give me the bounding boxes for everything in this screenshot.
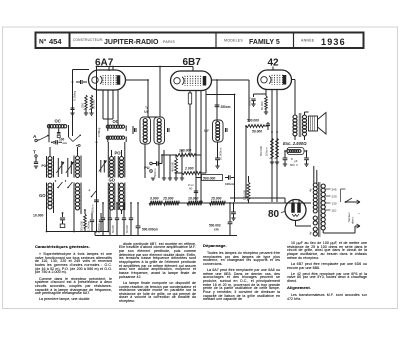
transformer output secondary bbox=[302, 115, 306, 136]
bus chassis bbox=[95, 235, 237, 237]
ground bbox=[168, 177, 172, 179]
wire plate 6B7 bbox=[212, 79, 249, 81]
svg-text:3.000: 3.000 bbox=[150, 197, 159, 201]
speaker voice coil bbox=[309, 116, 318, 131]
wire bbox=[272, 67, 274, 71]
header box bbox=[36, 33, 364, 49]
coil GO 2a bbox=[107, 183, 109, 211]
wire bbox=[107, 210, 109, 232]
svg-text:10.000cm: 10.000cm bbox=[219, 147, 223, 160]
switch contact bbox=[67, 187, 69, 189]
svg-text:1.000cm: 1.000cm bbox=[87, 221, 91, 231]
switch voltage selector bbox=[345, 201, 347, 203]
variable capacitor bbox=[67, 161, 69, 174]
bus B+ bbox=[150, 202, 311, 204]
capacitor bbox=[100, 213, 102, 219]
coil PO 1a bbox=[46, 156, 48, 178]
svg-text:OC: OC bbox=[55, 118, 61, 123]
svg-text:altern.: altern. bbox=[351, 216, 355, 224]
transformer power core bbox=[318, 182, 320, 237]
ground bbox=[304, 163, 308, 165]
switch contact bbox=[73, 136, 80, 142]
resistor 500.000 boxed bbox=[202, 175, 223, 181]
trimmer capacitor bbox=[225, 128, 227, 132]
svg-text:ANNÉE: ANNÉE bbox=[301, 38, 315, 43]
coil GO 2b bbox=[117, 183, 119, 211]
resistor 50.000 grid 42 bbox=[265, 94, 267, 96]
terminal bbox=[76, 145, 78, 147]
wire plate 42 bbox=[292, 79, 296, 81]
svg-text:500.000: 500.000 bbox=[203, 177, 215, 181]
variable capacitor 2 bbox=[100, 160, 102, 173]
svg-text:100cm: 100cm bbox=[225, 182, 235, 186]
transformer MF2 bbox=[213, 120, 224, 142]
svg-text:50.000: 50.000 bbox=[260, 101, 264, 110]
wire 42 leads bbox=[265, 90, 267, 95]
ground bbox=[89, 112, 93, 114]
wire bbox=[230, 197, 285, 199]
svg-text:2.000: 2.000 bbox=[184, 167, 194, 171]
wire grid-cap bus bbox=[97, 66, 194, 68]
svg-text:500.000cm: 500.000cm bbox=[142, 228, 158, 232]
coil PO 1b bbox=[73, 156, 75, 178]
tap 130 bbox=[325, 202, 330, 204]
resistor 250 bbox=[85, 95, 87, 109]
svg-text:454: 454 bbox=[49, 37, 62, 46]
resistor 10.000 bbox=[187, 201, 202, 205]
wire grid cap 6A7 bbox=[108, 67, 110, 72]
junction dots bbox=[96, 66, 98, 68]
svg-text:500.000: 500.000 bbox=[247, 119, 259, 123]
capacitor 1.000cm bbox=[102, 203, 104, 218]
ground bbox=[70, 112, 74, 114]
svg-text:PO: PO bbox=[115, 151, 122, 156]
transformer output primary bbox=[293, 115, 297, 136]
capacitor bbox=[229, 203, 231, 222]
wire bbox=[304, 112, 306, 115]
wire bbox=[96, 67, 98, 233]
svg-text:FAMILY 5: FAMILY 5 bbox=[249, 39, 280, 46]
svg-text:500: 500 bbox=[290, 163, 295, 167]
resistor 50.000 bbox=[90, 95, 92, 109]
capacitor 10.000cm bbox=[215, 157, 220, 159]
wire bbox=[245, 126, 247, 198]
resistor 500.000 agc bbox=[84, 214, 87, 228]
capacitor bbox=[233, 203, 235, 212]
svg-text:6B7: 6B7 bbox=[183, 57, 202, 68]
wire bbox=[163, 150, 165, 178]
transformer MF1 secondary bbox=[154, 117, 165, 144]
resistor 150.000 bbox=[247, 182, 250, 200]
svg-text:OC: OC bbox=[113, 119, 119, 124]
svg-text:6A7: 6A7 bbox=[95, 58, 114, 69]
tube 6A7 bbox=[89, 70, 126, 90]
svg-text:CONSTRUCTEUR:: CONSTRUCTEUR: bbox=[73, 38, 103, 42]
wire 6A7 cathode leads bbox=[102, 90, 104, 119]
svg-text:850cm: 850cm bbox=[91, 204, 95, 213]
resistor 15.000 bbox=[164, 201, 180, 205]
capacitor 100cm bbox=[225, 177, 228, 179]
svg-text:50.000: 50.000 bbox=[252, 130, 262, 134]
wire bbox=[112, 67, 114, 71]
ground bbox=[180, 177, 184, 179]
field coil bbox=[287, 148, 304, 155]
resistor 500.000 vertical bbox=[271, 138, 274, 158]
wire bbox=[175, 155, 177, 158]
switch contact bbox=[91, 196, 93, 198]
wire bbox=[313, 166, 315, 184]
svg-text:80: 80 bbox=[268, 209, 280, 220]
svg-text:50.000: 50.000 bbox=[125, 225, 129, 233]
terminal mains bbox=[357, 224, 361, 228]
svg-text:Exc. 2.500Ω: Exc. 2.500Ω bbox=[283, 141, 307, 146]
terminal PU bbox=[150, 162, 153, 165]
svg-text:GO: GO bbox=[109, 178, 116, 183]
switch contact bbox=[57, 187, 59, 189]
svg-text:V: V bbox=[296, 163, 298, 167]
ground bbox=[174, 177, 178, 179]
wire bbox=[49, 147, 51, 157]
transformer power HT winding bbox=[313, 183, 317, 213]
wire bbox=[144, 144, 146, 150]
wire bbox=[84, 210, 86, 214]
svg-text:4: 4 bbox=[89, 189, 91, 193]
ground bbox=[84, 112, 88, 114]
svg-text:PARIS: PARIS bbox=[163, 40, 175, 44]
resistor 15.000 bbox=[210, 201, 226, 205]
svg-text:500cm: 500cm bbox=[153, 168, 157, 177]
svg-text:0,1Meg: 0,1Meg bbox=[73, 91, 77, 101]
wire bbox=[216, 80, 218, 121]
trimmer capacitor bbox=[58, 129, 60, 133]
ground bbox=[162, 177, 166, 179]
wire bbox=[271, 132, 273, 138]
capacitor 50.000 bbox=[130, 203, 132, 218]
svg-text:1936: 1936 bbox=[321, 37, 346, 47]
transformer output core bbox=[298, 113, 300, 137]
svg-text:MF: MF bbox=[204, 129, 210, 133]
ground bbox=[151, 177, 155, 179]
resistor 400.000 bbox=[175, 158, 178, 173]
trimmer capacitor bbox=[167, 128, 169, 132]
capacitor 500.000cm bbox=[137, 203, 139, 226]
resistor 2.000 bbox=[182, 172, 200, 175]
svg-text:500.000: 500.000 bbox=[80, 220, 84, 231]
capacitor bbox=[72, 95, 74, 108]
capacitor bbox=[34, 161, 38, 163]
resistor 100.000 bbox=[176, 154, 195, 157]
svg-text:15.000: 15.000 bbox=[211, 197, 221, 201]
tap 230 bbox=[325, 195, 330, 197]
trimmer capacitor bbox=[134, 128, 136, 132]
coil OC 2b bbox=[106, 136, 124, 139]
wire bbox=[162, 154, 176, 156]
coil GO 1a bbox=[46, 183, 48, 210]
wire bbox=[46, 209, 48, 232]
svg-text:50.000: 50.000 bbox=[92, 99, 96, 109]
tube 80 bbox=[285, 200, 306, 221]
transformer power primary bbox=[321, 184, 325, 230]
tap 110 bbox=[325, 209, 330, 211]
svg-text:50.000: 50.000 bbox=[111, 225, 115, 233]
header N 454 bbox=[39, 37, 62, 46]
capacitor 8uF bbox=[283, 157, 288, 159]
coil PO 2b bbox=[117, 156, 119, 178]
wire bbox=[85, 109, 87, 113]
transformer power 4V winding bbox=[313, 216, 317, 225]
tap 245 bbox=[325, 188, 330, 190]
svg-text:N°: N° bbox=[39, 38, 47, 46]
terminal bbox=[51, 142, 53, 144]
variable capacitor bbox=[57, 161, 59, 174]
svg-text:MODELES: MODELES bbox=[224, 39, 243, 43]
svg-text:110: 110 bbox=[332, 209, 337, 213]
wire plate 6A7 bbox=[126, 79, 149, 81]
capacitor 8uF 500V bbox=[304, 157, 309, 159]
switch antenna bbox=[37, 139, 39, 142]
svg-text:250: 250 bbox=[81, 103, 85, 108]
tube 6B7 bbox=[171, 71, 212, 91]
ground bbox=[251, 103, 255, 105]
capacitor 10.000 bbox=[62, 213, 64, 217]
svg-text:100cm: 100cm bbox=[265, 147, 269, 156]
tube 42 bbox=[258, 70, 292, 90]
wire bbox=[284, 151, 286, 158]
capacitor 100cm bbox=[76, 81, 80, 83]
resistor 500.000 bbox=[246, 125, 264, 128]
wire bbox=[159, 67, 161, 118]
svg-text:4V: 4V bbox=[309, 188, 313, 192]
coil PO 2a bbox=[107, 156, 109, 178]
svg-text:250cm: 250cm bbox=[221, 105, 231, 109]
wire bbox=[107, 142, 109, 156]
svg-text:10.000: 10.000 bbox=[33, 214, 43, 218]
svg-text:cm: cm bbox=[214, 228, 219, 232]
terminal PU bbox=[150, 170, 153, 173]
wire bbox=[192, 67, 194, 72]
ground bbox=[270, 161, 274, 163]
wire bbox=[217, 142, 219, 158]
wire bbox=[196, 177, 202, 179]
wire bbox=[322, 230, 324, 233]
wire bbox=[281, 212, 285, 213]
ground bbox=[231, 217, 235, 219]
coil GO 1b bbox=[73, 183, 75, 211]
capacitor 500cm bbox=[153, 163, 157, 165]
wire bbox=[73, 69, 90, 71]
svg-text:400.000: 400.000 bbox=[171, 161, 175, 172]
ground bbox=[215, 165, 219, 167]
svg-text:10.000: 10.000 bbox=[188, 197, 198, 201]
svg-text:230: 230 bbox=[332, 195, 337, 199]
ground bbox=[34, 165, 38, 167]
capacitor 100cm bbox=[48, 132, 50, 143]
svg-text:100.000: 100.000 bbox=[179, 149, 191, 153]
capacitor 100cm bbox=[254, 93, 267, 95]
transformer power 4V winding 2 bbox=[313, 227, 317, 236]
ground bbox=[275, 161, 279, 163]
terminal mains bbox=[357, 200, 361, 204]
wire bbox=[246, 197, 249, 199]
svg-text:60: 60 bbox=[189, 187, 193, 191]
resistor 3.000 bbox=[149, 201, 162, 205]
resistor grid leak 6B7 bbox=[188, 93, 191, 104]
svg-text:PO: PO bbox=[42, 164, 47, 168]
svg-text:MF: MF bbox=[144, 110, 149, 114]
transformer MF1 primary bbox=[140, 117, 151, 144]
ground bbox=[264, 111, 268, 113]
capacitor bbox=[116, 203, 118, 218]
svg-text:GO: GO bbox=[39, 193, 46, 198]
svg-text:500.000: 500.000 bbox=[259, 145, 263, 156]
wire 6B7 leads bbox=[189, 91, 191, 94]
speaker cone bbox=[318, 113, 327, 135]
capacitor bbox=[109, 203, 111, 218]
wire bbox=[72, 70, 74, 137]
svg-text:130: 130 bbox=[332, 202, 337, 206]
resistor 100cm vertical bbox=[276, 138, 279, 158]
coil OC antenna bbox=[48, 125, 50, 132]
wire bbox=[94, 232, 96, 236]
wire bbox=[145, 116, 160, 118]
svg-text:cm: cm bbox=[63, 141, 68, 145]
svg-text:JUPITER-RADIO: JUPITER-RADIO bbox=[104, 39, 159, 46]
wire avc bbox=[234, 95, 236, 203]
capacitor 1.000cm bbox=[91, 213, 93, 219]
svg-text:4V: 4V bbox=[309, 231, 313, 235]
capacitor 850cm bbox=[94, 199, 99, 201]
coil OC 2a bbox=[107, 126, 109, 132]
svg-text:245: 245 bbox=[332, 188, 337, 192]
capacitor bbox=[267, 122, 269, 124]
wire bbox=[35, 157, 37, 162]
svg-text:0,5Meg: 0,5Meg bbox=[97, 127, 101, 137]
capacitor bbox=[123, 203, 125, 218]
ground bbox=[283, 163, 287, 165]
capacitor 250cm bbox=[215, 104, 220, 106]
svg-text:15.000: 15.000 bbox=[163, 197, 173, 201]
wire bbox=[111, 150, 113, 157]
svg-text:PU: PU bbox=[144, 165, 150, 170]
wire bbox=[57, 158, 59, 161]
svg-text:100cm: 100cm bbox=[248, 97, 252, 106]
